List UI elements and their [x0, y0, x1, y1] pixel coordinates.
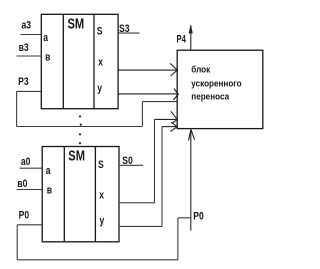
wire P3 into carry block [142, 101, 177, 103]
wire P0 step horizontal to riser [178, 217, 191, 219]
pin label S (top block) [97, 26, 103, 38]
wire P0 riser into carry block with up arrow [189, 129, 195, 230]
pin label a (top block) [43, 32, 48, 44]
svg-text:P0: P0 [193, 211, 204, 223]
wire y0 into carry block corner with arrow [162, 122, 177, 131]
svg-text:S: S [97, 26, 103, 38]
svg-text:в0: в0 [17, 178, 27, 190]
wire y0 output horizontal from SM0 [119, 225, 162, 227]
svg-text:в: в [45, 51, 50, 63]
svg-text:блок: блок [191, 64, 210, 75]
svg-text:y: y [97, 83, 102, 95]
label блок [191, 64, 210, 75]
pin label a (bottom block) [46, 165, 51, 177]
wire P0 input to SM0 [17, 224, 42, 226]
wire P3 vertical drop at left [16, 91, 18, 126]
adder block SM0 (bottom) [42, 147, 119, 242]
label в3 [19, 42, 29, 54]
svg-text:P0: P0 [19, 209, 30, 221]
wire y3 output to carry block [118, 89, 178, 100]
svg-text:a: a [46, 165, 51, 177]
wire x0 into carry block with arrow [155, 111, 178, 123]
svg-text:P3: P3 [18, 76, 29, 88]
wire S0 output [119, 164, 143, 166]
svg-text:в3: в3 [19, 42, 29, 54]
wire x0 output horizontal from SM0 [119, 202, 155, 204]
wire y0 riser [161, 127, 163, 227]
svg-text:y: y [100, 215, 105, 227]
wire P0 vertical drop at left [16, 225, 18, 260]
wire P3 riser to carry block level [141, 102, 143, 127]
pin label в (bottom block) [47, 185, 52, 197]
label S0 [122, 155, 133, 167]
wire P0 riser step vertical [177, 218, 179, 260]
label SM (top block) [68, 15, 85, 32]
label ускоренного [191, 78, 241, 89]
pin label S (bottom block) [98, 159, 104, 171]
label P3 [18, 76, 29, 88]
svg-text:SM: SM [68, 15, 85, 32]
label S3 [119, 23, 130, 35]
svg-text:P4: P4 [177, 33, 187, 46]
wire P3 horizontal run under SM3 [17, 126, 143, 128]
svg-text:x: x [99, 190, 104, 202]
svg-text:в: в [47, 185, 52, 197]
ellipsis dots between adder stages [79, 115, 82, 144]
label SM (bottom block) [68, 147, 85, 164]
label переноса [191, 91, 229, 102]
label a0 [21, 156, 31, 168]
svg-text:S: S [98, 159, 104, 171]
svg-text:a0: a0 [21, 156, 31, 168]
pin label y (bottom block) [100, 215, 105, 227]
pin label x (top block) [98, 57, 103, 69]
svg-text:ускоренного: ускоренного [191, 78, 241, 89]
wire в3 input [17, 55, 42, 57]
wire a0 input [20, 167, 43, 169]
wire a3 input [20, 34, 41, 36]
pin label y (top block) [97, 83, 102, 95]
adder block SM3 (top) [41, 14, 118, 108]
svg-text:a: a [43, 32, 48, 44]
wire x0 riser [154, 119, 156, 202]
label a3 [22, 19, 32, 31]
svg-text:переноса: переноса [191, 91, 229, 102]
wire S3 output [118, 32, 139, 34]
carry lookahead block (блок ускоренного переноса) [177, 50, 263, 128]
wire P0 bottom horizontal run [17, 259, 178, 261]
label P0 (at riser) [193, 211, 204, 223]
label P0 (left) [19, 209, 30, 221]
wire P3 input to SM3 [17, 90, 42, 92]
label в0 [17, 178, 27, 190]
svg-text:x: x [98, 57, 103, 69]
svg-text:a3: a3 [22, 19, 32, 31]
pin label в (top block) [45, 51, 50, 63]
wire P4 output with up arrow [189, 25, 193, 50]
label P4 [177, 33, 187, 46]
wire в0 input [17, 189, 43, 191]
wire x3 output to carry block [118, 63, 177, 76]
pin label x (bottom block) [99, 190, 104, 202]
svg-text:SM: SM [68, 147, 85, 164]
